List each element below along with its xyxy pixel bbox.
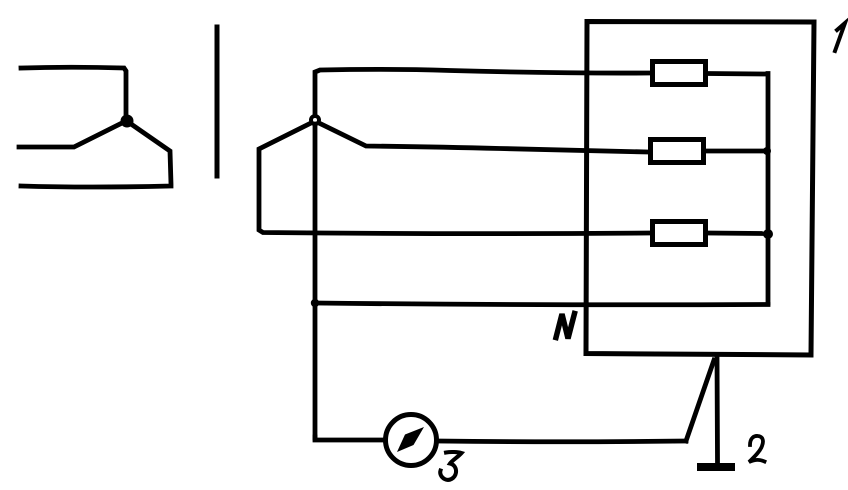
node: R-C to bus junction dot [763,229,773,239]
label N (neutral net) [556,314,575,339]
wire: phase A from star point to load (top run) [315,69,650,115]
label 3 (meter) [440,452,461,480]
wire: phase B from star point to load (second run) [319,123,648,152]
wire: primary phase A lead (top-left) [21,67,126,116]
resistor R-phase-B [651,140,704,163]
node: secondary star point (open junction) [311,116,319,124]
wire: primary phase B lead (middle-left) [19,122,124,147]
wire: neutral vertical from star point [313,124,318,438]
wire: ground stub from box bottom [715,356,720,461]
transformer core bar [215,27,220,176]
node: primary star point (filled junction) [121,115,134,128]
wire: primary phase C lead (bottom-left) [21,124,171,187]
load box 1 (outline) [586,22,814,356]
node: neutral junction dot [311,299,319,307]
wire: R-A right lead [708,71,766,76]
node: R-B to bus junction [763,147,771,155]
wire: R-C right lead [708,231,764,236]
ground electrode bar [701,463,731,471]
wire: phase C from star point to load (third run) [259,123,650,234]
label 1 (load box) [835,23,845,51]
wire: R-B right lead [705,149,766,154]
switch blade (diagonal wire to ground stub) [686,360,714,441]
label 2 (ground electrode) [749,436,765,462]
resistor R-phase-C [653,222,706,245]
wire: common bus joining resistor right ends to neutral [766,74,771,304]
meter P3 (indicator instrument) [386,415,437,466]
wire: bottom run from neutral to meter [315,437,384,440]
wire: neutral N run to load box [315,303,768,305]
wire: bottom run from meter to switch blade [437,439,686,445]
resistor R-phase-A [653,62,706,85]
meter needle arrow [397,427,424,452]
